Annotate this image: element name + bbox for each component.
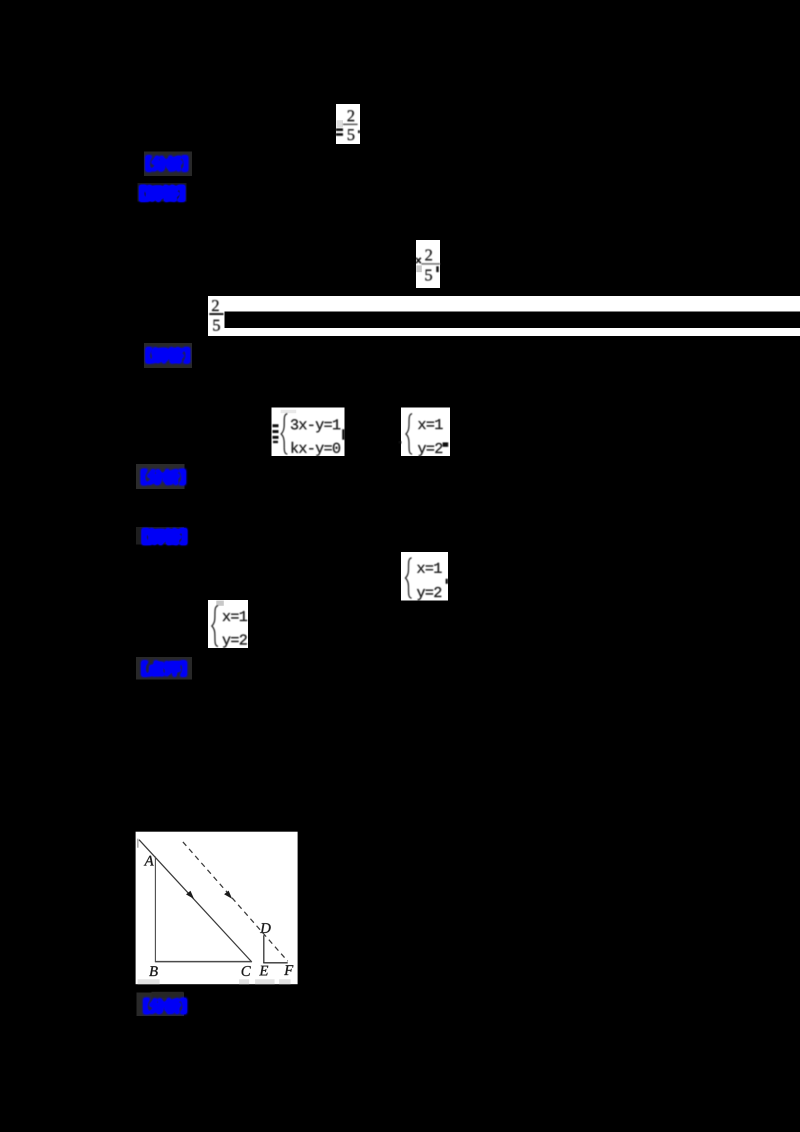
blue label 解答 [141,186,184,200]
blue label 解答 [147,348,189,362]
line AB [154,857,156,962]
blue label 分析 [147,156,187,170]
highlight box label7 [137,993,185,1017]
blue label 分析 [144,999,185,1013]
equation image =2/5 [336,104,360,144]
wide equation strip 2/5 [208,296,800,336]
highlight box label6 [136,657,192,680]
line EF [263,962,288,964]
blue label 点评 [142,662,185,676]
highlight box label4 [136,464,185,489]
equation image system x=1 y=2 (b) [401,552,448,601]
highlight box label2 [138,183,187,202]
line BC [155,961,252,963]
highlight box label5 [136,527,184,545]
highlight box label1 [144,152,192,177]
highlight box label3 [144,343,192,368]
blue label 解答 [143,529,186,543]
equation image system 3x-y=1 kx-y=0 [272,408,345,457]
line DE [263,935,265,963]
geometry figure triangles ABC DEF [136,832,298,985]
blue label 分析 [142,470,185,484]
equation image system x=1 y=2 (c) [208,600,248,648]
line AC with arrow [139,840,252,962]
equation image system x=1 y=2 (a) [399,408,450,457]
bottom artifacts [138,979,160,984]
dashed line D-F with arrow [183,842,288,961]
equation image x2/5 [416,240,440,288]
vertex labels [144,856,154,866]
